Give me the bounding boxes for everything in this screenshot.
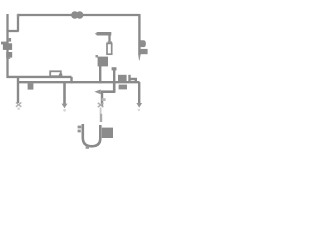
- wire staircase vertical V2: [17, 15, 19, 32]
- crystal Y1 body: [118, 75, 127, 81]
- wire top-left vertical V1: [6, 14, 8, 31]
- wire rail2: [18, 81, 140, 83]
- node top of V2: [17, 14, 20, 17]
- wire-end wedge right: [136, 103, 142, 111]
- wire label to R1: [108, 35, 110, 43]
- buzzer pin tick 2: [78, 130, 81, 133]
- wire staircase horizontal: [7, 30, 19, 32]
- wire junction vertical at x18: [17, 77, 19, 103]
- junction glyph mid: [98, 98, 106, 107]
- buzzer bottom tick: [86, 146, 89, 148]
- capacitor C1: [28, 83, 34, 89]
- net label arrow (middle top): [95, 32, 111, 36]
- capacitor C3: [119, 85, 127, 90]
- transistor Q1: [1, 38, 12, 59]
- buzzer pad box: [102, 128, 113, 138]
- wire-end wedge pointing left: [94, 89, 101, 94]
- capacitor C2 top plate: [112, 67, 117, 70]
- wire jog rail1 to rail2: [70, 77, 72, 83]
- wire rail2 down at x114: [113, 82, 116, 92]
- resistor R1: [107, 43, 112, 54]
- wire Y1 lead right: [131, 79, 136, 83]
- node R2 right lead: [59, 74, 62, 78]
- resistor R2: [50, 71, 61, 76]
- wire-end wedge at x64: [62, 104, 68, 112]
- wire C2 to rail2: [113, 70, 115, 83]
- transistor Q2: [138, 40, 147, 60]
- buzzer pin tick 1: [78, 126, 82, 129]
- node R1 top: [108, 41, 113, 43]
- IC U1 body: [98, 57, 108, 67]
- wire mid down vertical: [101, 92, 103, 106]
- buzzer BZ1 shell: [83, 124, 101, 146]
- crystal Y1 right plate: [128, 75, 130, 81]
- wire right hanging vertical: [138, 82, 140, 104]
- fuse F1: [71, 11, 83, 18]
- no-connect X terminal left: [16, 102, 21, 110]
- wire hanging vertical at x64: [63, 82, 66, 104]
- wire right vertical from top rail: [138, 14, 140, 55]
- wire mid horizontal: [101, 90, 115, 93]
- node U1 top-left pin: [96, 55, 99, 58]
- wire U1 bottom to rail2: [99, 66, 101, 83]
- wire top rail: [18, 14, 140, 16]
- wire stub to buzzer: [100, 108, 102, 115]
- wire rail1: [7, 76, 72, 78]
- wire left branch vertical V3: [6, 30, 8, 78]
